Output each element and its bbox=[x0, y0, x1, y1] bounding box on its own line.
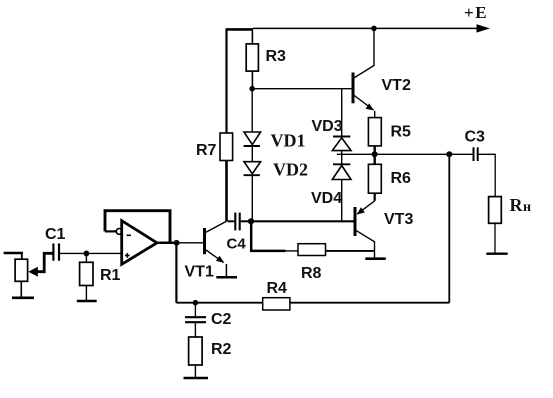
wire: right feedback vertical bbox=[448, 154, 450, 302]
capacitor C3 bbox=[474, 147, 478, 161]
wire: +E supply rail top bbox=[227, 28, 479, 29]
ground: R1 bbox=[77, 300, 97, 303]
svg-text:R8: R8 bbox=[301, 265, 322, 282]
svg-text:R1: R1 bbox=[100, 267, 121, 284]
wire: output to VT1 base bbox=[177, 242, 205, 244]
svg-text:VT3: VT3 bbox=[384, 211, 413, 228]
svg-text:R6: R6 bbox=[391, 170, 412, 187]
svg-text:VD3: VD3 bbox=[312, 118, 343, 135]
wire: VD3 top lead from VT2 base line bbox=[341, 89, 343, 137]
resistor R4 bbox=[263, 298, 290, 310]
resistor R3 bbox=[246, 44, 258, 71]
capacitor C4 bbox=[228, 213, 252, 231]
wire: VD4 bottom lead to VT3 base line bbox=[341, 180, 343, 222]
node: R1 / op-amp input junction bbox=[84, 251, 90, 257]
wire: output down to R4 line bbox=[175, 243, 177, 303]
capacitor C2 bbox=[185, 303, 206, 337]
node: feedback takeoff junction bbox=[446, 151, 452, 157]
wire: R3 bottom lead bbox=[251, 71, 253, 89]
diode VD2 bbox=[244, 162, 261, 176]
svg-text:C4: C4 bbox=[227, 236, 247, 253]
input terminal line bbox=[4, 252, 23, 255]
svg-text:VT1: VT1 bbox=[185, 264, 214, 281]
svg-text:R2: R2 bbox=[211, 341, 232, 358]
svg-text:R7: R7 bbox=[196, 142, 217, 159]
diode VD1 bbox=[244, 132, 261, 146]
wire: VD1-VD2 link bbox=[251, 146, 253, 162]
wire: R3 top lead bbox=[251, 28, 253, 44]
svg-text:VD4: VD4 bbox=[311, 190, 342, 207]
supply arrowhead bbox=[477, 24, 491, 32]
wire: R5 bottom lead bbox=[374, 146, 376, 154]
potentiometer wiper arrow + wire to C1 bbox=[28, 253, 52, 276]
op-amp U1 bbox=[122, 221, 157, 265]
wire: op-amp output bbox=[157, 242, 177, 245]
wire: C1 to R1 node bbox=[60, 252, 86, 254]
node: C2/R2 junction bbox=[193, 300, 199, 306]
transistor VT2 bbox=[353, 28, 375, 117]
wire: diode midpoint to R5/R6 junction bbox=[337, 153, 375, 155]
wire: R8 to VT3 collector bbox=[326, 250, 375, 252]
wire: node to op-amp + input bbox=[86, 252, 121, 254]
diode VD4 bbox=[332, 164, 351, 179]
node: R5/R6 junction bbox=[372, 151, 378, 157]
wire: R6 top lead bbox=[374, 154, 376, 164]
svg-text:R5: R5 bbox=[391, 124, 412, 141]
ground: Rн bbox=[486, 253, 507, 255]
node: C4 / VT3 base node bbox=[248, 218, 254, 224]
node: rail junction above VT2 bbox=[371, 26, 377, 32]
svg-text:VT2: VT2 bbox=[382, 77, 411, 94]
transistor VT1 bbox=[205, 221, 227, 276]
capacitor C1 bbox=[53, 244, 59, 261]
wire: lower feedback line (left part) bbox=[176, 302, 262, 304]
ground: potentiometer bbox=[12, 296, 34, 299]
resistor R6 bbox=[368, 164, 381, 193]
ground: VT3 collector bbox=[365, 257, 386, 260]
svg-text:VD1: VD1 bbox=[271, 131, 306, 151]
wire: feedback to inverting input bbox=[105, 230, 116, 232]
ground: R2 bbox=[184, 377, 209, 379]
diode VD3 bbox=[332, 137, 351, 151]
op-amp U1 feedback loop rectangle bbox=[105, 211, 170, 243]
resistor R2 bbox=[189, 337, 203, 365]
wire: C3 to Rн bbox=[479, 154, 496, 196]
wire: R5/R6 junction to C3 bbox=[375, 153, 473, 155]
wire: lower feedback line (right part) bbox=[290, 302, 449, 304]
svg-text:R3: R3 bbox=[266, 48, 287, 65]
wire: base line to VT2 bbox=[252, 88, 353, 90]
transistor VT3 bbox=[355, 193, 375, 258]
svg-text:C1: C1 bbox=[45, 226, 66, 243]
svg-text:VD2: VD2 bbox=[273, 160, 308, 180]
wire: R7 bottom to C4 node (VT1 collector feed) bbox=[225, 161, 228, 222]
wire: VD1 top lead bbox=[251, 89, 253, 132]
resistor R7 bbox=[220, 133, 233, 161]
wire: R2 bottom lead bbox=[194, 365, 196, 378]
ground: VT1 emitter bbox=[216, 276, 237, 279]
svg-text:C3: C3 bbox=[465, 129, 486, 146]
wire: Rн bottom lead bbox=[494, 223, 496, 253]
svg-text:+E: +E bbox=[464, 3, 487, 22]
resistor Rн (load) bbox=[489, 197, 502, 224]
wire: left vertical from rail to R7 bbox=[225, 28, 227, 133]
inverting input bubble bbox=[116, 229, 122, 235]
svg-text:C2: C2 bbox=[211, 311, 232, 328]
resistor R5 bbox=[368, 118, 381, 146]
wire: node down to R8 bbox=[251, 221, 285, 251]
node A: R3 / VT2 base junction bbox=[249, 86, 255, 92]
resistor R8 bbox=[298, 244, 326, 256]
svg-text:R4: R4 bbox=[267, 280, 288, 297]
potentiometer body bbox=[15, 253, 28, 297]
wire: VD2 bottom lead to C4 node bbox=[251, 175, 253, 221]
resistor R1 bbox=[80, 253, 93, 300]
wire: VD3-VD4 link bbox=[341, 151, 343, 165]
node: output junction bbox=[174, 240, 180, 246]
wire: node to VT3 base bbox=[251, 220, 355, 222]
